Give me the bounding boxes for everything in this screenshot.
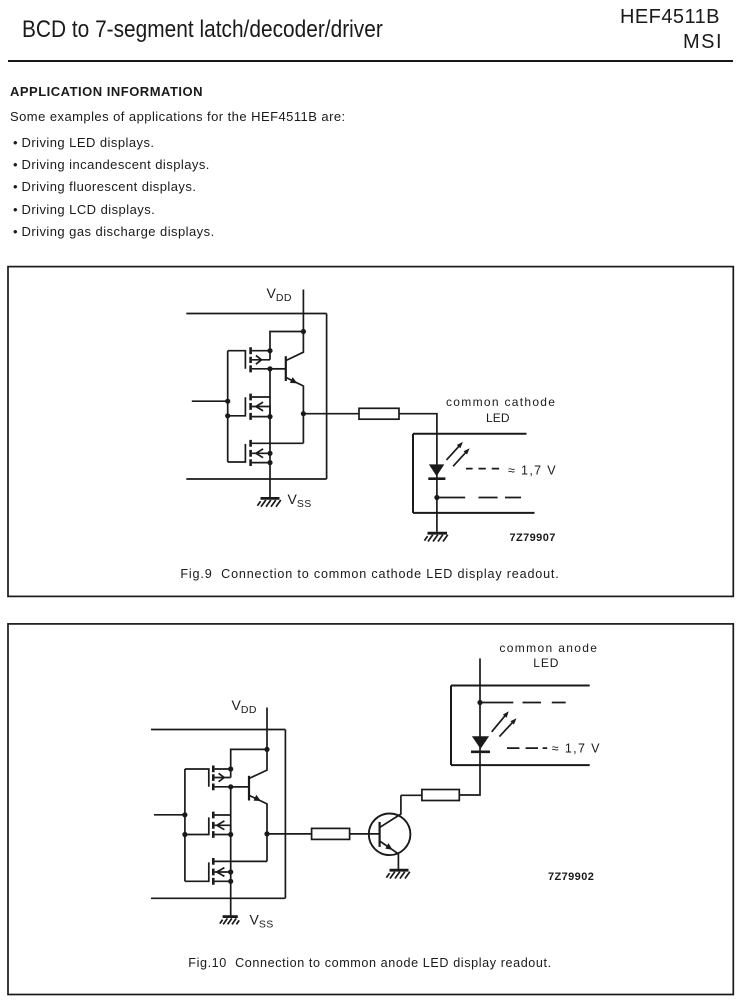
transistor Q2 base bar bbox=[248, 776, 250, 801]
wire gate bus bbox=[227, 351, 229, 462]
LED D1 light arrow 2 bbox=[453, 452, 466, 467]
resistor R1 bbox=[359, 408, 399, 419]
node input junction fig10 bbox=[182, 812, 187, 817]
wire resistor to Q3 base bbox=[350, 833, 380, 835]
wire output to resistor fig10 bbox=[267, 833, 312, 835]
header part number bbox=[620, 6, 720, 29]
svg-text:≈ 1,7 V: ≈ 1,7 V bbox=[508, 464, 557, 478]
header rule bbox=[8, 60, 733, 62]
transistor M1 gate bbox=[228, 351, 246, 369]
transistor M2 channel bbox=[249, 394, 252, 420]
bullet 4 bbox=[13, 202, 18, 217]
node gate bus junction bbox=[225, 413, 230, 418]
LED D1 triangle bbox=[429, 464, 444, 476]
node LED cathode junction bbox=[434, 495, 439, 500]
svg-text:common cathode: common cathode bbox=[446, 395, 556, 409]
transistor Q3 circle bbox=[369, 814, 411, 856]
transistor M4 bulk stub bbox=[215, 777, 231, 779]
display box bottom edge fig10 bbox=[451, 764, 590, 766]
dashed segment line lower bbox=[437, 497, 521, 499]
wire source-bulk column bbox=[269, 351, 271, 498]
LED D2 cathode bar bbox=[471, 750, 490, 753]
node M6 bulk bbox=[228, 869, 233, 874]
transistor M6 channel bbox=[212, 858, 215, 885]
wire source-bulk column fig10 bbox=[230, 769, 232, 916]
bullet 1 bbox=[13, 135, 18, 150]
wire M1 drain to collector bbox=[270, 332, 303, 351]
transistor M2 bulk stub bbox=[252, 407, 270, 417]
transistor M5 bulk arrow bbox=[217, 821, 225, 830]
LED D2 light arrow 1 bbox=[492, 715, 506, 732]
node gate bus junction fig10 bbox=[182, 832, 187, 837]
figure 10 border rect bbox=[8, 624, 733, 995]
node collector junction bbox=[301, 329, 306, 334]
wire LED cathode column bbox=[479, 658, 481, 751]
figure 10 caption bbox=[8, 956, 732, 970]
node M3 source bbox=[267, 460, 272, 465]
transistor M4 source stub bbox=[215, 786, 249, 788]
wire output to resistor bbox=[303, 413, 359, 415]
node M5 source bbox=[228, 832, 233, 837]
node M2 source bbox=[267, 414, 272, 419]
node M1 source bbox=[267, 366, 272, 371]
transistor Q2 base wire bbox=[231, 786, 249, 788]
bullet 2 bbox=[13, 157, 18, 172]
node collector junction fig10 bbox=[264, 747, 269, 752]
transistor M1 source stub bbox=[252, 368, 286, 370]
transistor M3 bulk stub bbox=[252, 452, 270, 454]
node input junction bbox=[225, 399, 230, 404]
section heading bbox=[10, 84, 203, 99]
transistor Q1 collector bbox=[286, 332, 303, 361]
transistor Q1 base wire bbox=[270, 368, 286, 370]
dashed level line fig10 bbox=[507, 747, 547, 749]
transistor M1 bulk arrow bbox=[256, 355, 262, 364]
LED D1 light arrow 1 bbox=[447, 445, 460, 460]
transistor Q3 base bar bbox=[379, 822, 381, 847]
wire R3 to LED column bbox=[459, 752, 480, 795]
node output fig10 bbox=[264, 831, 269, 836]
dashed segment line fig10 bbox=[480, 702, 566, 704]
wire VDD supply fig10 bbox=[266, 708, 268, 750]
transistor M2 bulk arrow bbox=[256, 402, 263, 411]
ground GND3 bbox=[390, 869, 409, 872]
transistor Q3 collector bbox=[380, 795, 401, 827]
transistor M3 channel bbox=[249, 440, 252, 466]
figure 9 border rect bbox=[8, 267, 733, 597]
svg-text:LED: LED bbox=[533, 656, 559, 670]
transistor M2 drain stub bbox=[252, 396, 270, 398]
wire input bbox=[192, 400, 228, 402]
wire top rail fig10 bbox=[151, 729, 285, 731]
transistor M5 gate bbox=[185, 817, 209, 834]
svg-text:VSS: VSS bbox=[250, 912, 274, 931]
transistor M5 source stub bbox=[215, 834, 231, 836]
wire right outline edge fig10 bbox=[284, 730, 286, 899]
svg-text:common anode: common anode bbox=[499, 641, 598, 655]
transistor M4 bulk arrow bbox=[219, 773, 225, 781]
transistor M6 bulk stub bbox=[215, 871, 231, 873]
LED D2 triangle bbox=[472, 736, 489, 749]
svg-text:VDD: VDD bbox=[232, 697, 257, 716]
display box bottom edge bbox=[413, 512, 535, 514]
figure 9 caption bbox=[8, 567, 732, 581]
svg-text:7Z79902: 7Z79902 bbox=[548, 871, 594, 883]
transistor Q1 emitter bbox=[286, 378, 303, 414]
wire VDD supply bbox=[302, 290, 304, 332]
dashed level line upper bbox=[466, 468, 499, 470]
svg-text:LED: LED bbox=[486, 411, 510, 425]
node M4 source bbox=[228, 784, 233, 789]
transistor Q3 emitter bbox=[380, 841, 399, 869]
transistor M6 source stub bbox=[215, 880, 231, 882]
transistor Q2 emitter bbox=[249, 795, 267, 834]
wire resistor to LED bbox=[399, 414, 437, 463]
ground GND4 VSS fig10 bbox=[223, 915, 238, 918]
display box left edge bbox=[412, 434, 414, 513]
svg-text:≈ 1,7 V: ≈ 1,7 V bbox=[552, 742, 601, 756]
transistor M4 channel bbox=[212, 766, 215, 791]
transistor M4 drain stub bbox=[215, 768, 231, 770]
header title bbox=[22, 16, 383, 44]
transistor Q2 emitter arrow bbox=[254, 795, 261, 801]
svg-text:7Z79907: 7Z79907 bbox=[510, 532, 556, 544]
transistor M3 source stub bbox=[252, 462, 270, 464]
node M6 source bbox=[228, 879, 233, 884]
ground GND2 VSS bbox=[261, 497, 280, 500]
transistor M5 drain stub bbox=[215, 814, 231, 816]
wire top rail bbox=[186, 313, 326, 315]
wire M4 drain to collector bbox=[231, 749, 267, 769]
wire right outline edge bbox=[326, 314, 328, 480]
transistor M6 drain stub bbox=[215, 834, 267, 862]
bullet 5 bbox=[13, 224, 18, 239]
wire gate bus fig10 bbox=[184, 769, 186, 881]
transistor M1 bulk stub bbox=[252, 359, 270, 361]
node output bbox=[301, 411, 306, 416]
node M4 drain bbox=[228, 766, 233, 771]
transistor M6 bulk arrow bbox=[217, 868, 225, 877]
resistor R3 bbox=[422, 790, 459, 801]
ground GND1 bbox=[428, 532, 448, 535]
transistor M2 gate bbox=[228, 397, 246, 416]
LED D2 light arrow 2 bbox=[499, 722, 513, 737]
wire bottom rail fig10 bbox=[151, 897, 285, 899]
LED D1 cathode bar bbox=[428, 477, 445, 480]
transistor M3 drain stub bbox=[252, 414, 304, 444]
transistor M1 channel bbox=[249, 347, 252, 372]
transistor M2 source stub bbox=[252, 416, 270, 418]
node LED anode junction bbox=[477, 700, 482, 705]
transistor M3 gate bbox=[228, 444, 246, 462]
header MSI bbox=[683, 31, 723, 54]
transistor M5 bulk stub bbox=[215, 825, 231, 834]
wire input fig10 bbox=[154, 814, 185, 816]
wire Q3 collector to resistor R3 bbox=[401, 794, 422, 796]
svg-text:VSS: VSS bbox=[288, 491, 312, 510]
display box left edge fig10 bbox=[450, 686, 452, 766]
transistor M3 bulk arrow bbox=[256, 449, 263, 458]
wire LED anode column bbox=[436, 463, 438, 532]
intro paragraph bbox=[10, 109, 346, 124]
display box top edge fig10 bbox=[451, 685, 590, 687]
resistor R2 bbox=[312, 828, 350, 839]
transistor Q1 base bar bbox=[285, 356, 287, 381]
transistor M5 channel bbox=[212, 812, 215, 838]
display box top edge bbox=[413, 433, 527, 435]
wire bottom rail bbox=[186, 478, 326, 480]
svg-text:VDD: VDD bbox=[267, 285, 292, 304]
transistor Q3 emitter arrow bbox=[385, 843, 392, 850]
transistor Q1 emitter arrow bbox=[290, 377, 297, 383]
node M3 bulk bbox=[267, 451, 272, 456]
transistor M1 drain stub bbox=[252, 350, 270, 352]
transistor M6 gate bbox=[185, 862, 209, 881]
transistor M4 gate bbox=[185, 769, 209, 787]
transistor Q2 collector bbox=[249, 749, 267, 778]
bullet 3 bbox=[13, 179, 18, 194]
node M1 drain bbox=[267, 348, 272, 353]
